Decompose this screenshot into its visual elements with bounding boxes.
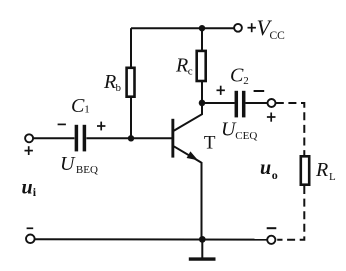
svg-text:u: u xyxy=(260,157,271,179)
label C2 xyxy=(230,65,249,88)
wire input to C1 xyxy=(33,137,74,139)
node VCC junction xyxy=(199,25,205,31)
label C1 xyxy=(71,95,90,117)
svg-text:L: L xyxy=(329,171,336,183)
wire dashed output top xyxy=(276,103,305,155)
transistor T base bar xyxy=(171,119,174,158)
svg-text:R: R xyxy=(315,159,328,181)
transistor T collector lead xyxy=(174,103,202,131)
capacitor C2 xyxy=(236,91,243,118)
transistor T emitter arrow xyxy=(187,151,198,160)
label uo xyxy=(260,157,278,182)
terminal VCC xyxy=(234,24,242,32)
label output minus sign xyxy=(267,227,277,229)
label input minus sign xyxy=(27,227,34,229)
svg-text:U: U xyxy=(60,153,76,175)
label C2 plus sign xyxy=(217,86,225,95)
wire Rb top xyxy=(130,28,132,68)
resistor Rc xyxy=(197,51,206,81)
resistor Rb xyxy=(127,68,135,97)
svg-text:u: u xyxy=(22,177,33,199)
transistor T emitter lead xyxy=(174,146,202,162)
label output top plus sign xyxy=(267,113,276,122)
wire Rb bottom xyxy=(130,97,132,138)
svg-text:C: C xyxy=(230,65,244,87)
label UBEQ xyxy=(60,153,98,176)
node base junction xyxy=(128,135,134,141)
label Rb xyxy=(103,71,122,94)
svg-text:R: R xyxy=(175,55,188,77)
label ui xyxy=(22,177,37,200)
wire C1 to base xyxy=(86,137,171,139)
resistor RL xyxy=(301,156,309,184)
label C1 minus sign xyxy=(58,123,66,125)
svg-text:1: 1 xyxy=(84,104,90,116)
wire Rc top xyxy=(201,28,203,51)
terminal input plus xyxy=(25,134,33,142)
ground xyxy=(189,239,216,259)
wire bottom rail xyxy=(35,238,267,240)
wire emitter down xyxy=(201,162,203,239)
label UCEQ xyxy=(221,119,257,142)
svg-text:i: i xyxy=(33,185,37,199)
label RL xyxy=(315,159,336,183)
label Rc xyxy=(175,55,193,78)
svg-text:b: b xyxy=(116,82,122,94)
terminal output top xyxy=(268,99,276,107)
wire Rc to collector node xyxy=(201,81,203,103)
svg-text:BEQ: BEQ xyxy=(76,164,98,176)
label +VCC xyxy=(248,15,286,42)
capacitor C1 xyxy=(76,125,84,152)
svg-text:CC: CC xyxy=(270,30,286,42)
svg-text:c: c xyxy=(188,66,193,78)
svg-text:C: C xyxy=(71,95,85,117)
wire top supply rail xyxy=(131,27,234,29)
wire C2 to output terminal xyxy=(246,102,268,104)
node collector junction xyxy=(199,100,206,107)
svg-text:2: 2 xyxy=(243,75,249,87)
terminal output bottom xyxy=(267,236,275,244)
svg-text:T: T xyxy=(204,133,216,154)
wire dashed output bottom xyxy=(277,186,304,240)
wire collector to C2 xyxy=(202,102,235,104)
node ground junction xyxy=(199,236,206,243)
svg-text:R: R xyxy=(103,71,116,93)
label C2 minus sign xyxy=(254,90,265,92)
label input plus sign xyxy=(25,146,33,155)
svg-text:CEQ: CEQ xyxy=(235,130,257,142)
terminal input minus xyxy=(26,235,35,244)
label C1 plus sign xyxy=(97,122,105,131)
svg-text:o: o xyxy=(272,168,278,182)
